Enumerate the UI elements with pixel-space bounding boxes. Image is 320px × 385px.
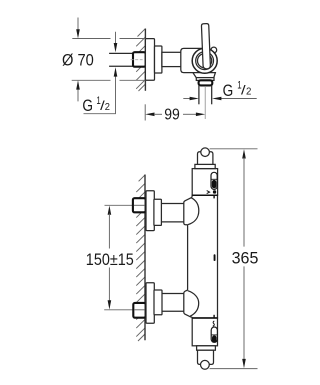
label G 1/2 (left)	[82, 95, 110, 115]
outlet pipe lines	[198, 85, 200, 104]
top ball end	[201, 148, 210, 157]
365 top extension line	[210, 148, 258, 150]
svg-text:2: 2	[246, 87, 252, 98]
dia70 dimension arrow top	[76, 18, 80, 39]
lower boss D-curve	[188, 291, 199, 317]
wall line (top view)	[144, 29, 146, 91]
upper small marks	[207, 191, 210, 194]
upper capsule black dot	[212, 180, 217, 188]
G1/2 inlet dimension arrow bottom + leader	[84, 67, 118, 113]
outlet centerline extension	[204, 86, 206, 119]
svg-text:99: 99	[164, 106, 180, 123]
365 dimension line + arrows	[242, 149, 246, 368]
dia70 dimension arrow bottom	[76, 80, 80, 101]
lower inlet union nut (front view)	[133, 303, 145, 318]
upper boss D-curve	[188, 198, 199, 225]
99 dimension left extension	[144, 104, 146, 120]
valve body block (top view)	[181, 48, 208, 72]
wall hatching (front view)	[136, 175, 145, 341]
temperature stop nub on hub	[211, 47, 217, 53]
wall line (front view)	[144, 175, 146, 341]
outlet union nut (below hub)	[199, 80, 213, 85]
upper tick below joint	[213, 196, 215, 199]
lower wall flange	[146, 283, 154, 323]
bottom collar	[197, 346, 216, 350]
outlet neck trapezoid	[193, 73, 216, 78]
lower temp-safety capsule	[211, 327, 217, 342]
inlet centerline (dashed)	[131, 59, 143, 61]
upper nut centerline	[134, 204, 145, 206]
wall flange Ø70 (top view)	[145, 39, 154, 81]
svg-text:Ø 70: Ø 70	[62, 51, 94, 70]
shut-off lever (top view)	[201, 24, 210, 69]
150 dim upper extension line	[105, 204, 147, 206]
outlet collar lip	[196, 78, 214, 81]
top collar	[195, 164, 215, 168]
handle hub outer circle	[192, 48, 217, 73]
connection pipe (top view)	[162, 52, 181, 66]
lower connection pipe	[162, 294, 184, 312]
top cartridge housing	[192, 169, 217, 196]
svg-text:150±15: 150±15	[86, 250, 134, 269]
lower capsule black dot	[212, 335, 217, 342]
bottom ball end	[201, 360, 210, 369]
svg-text:365: 365	[232, 248, 259, 267]
svg-text:2: 2	[105, 102, 111, 113]
hub ring 3	[198, 54, 212, 68]
top stem	[198, 152, 213, 165]
inlet pipe behind wall	[109, 53, 133, 66]
dia70 top extension line	[72, 38, 145, 40]
union nut (top view, behind wall)	[133, 52, 146, 66]
lower tick above joint	[213, 315, 215, 318]
365 bottom extension line	[210, 368, 258, 370]
wall hatching (top view)	[136, 29, 145, 91]
bottom joint line	[192, 317, 217, 319]
150 dimension line + arrows	[108, 206, 112, 310]
dia70 bottom extension line	[72, 79, 146, 81]
upper wall flange	[146, 191, 154, 231]
bottom stem	[198, 350, 214, 364]
upper connection pipe	[161, 204, 184, 222]
thermostat body outline (front view)	[184, 195, 218, 318]
lower nut centerline	[134, 309, 145, 311]
mid clip tick	[214, 254, 216, 261]
G1/2 outlet arrows	[183, 97, 256, 101]
99 dimension line + arrows	[145, 113, 205, 117]
svg-text:G: G	[223, 82, 234, 100]
label G 1/2 (right)	[223, 80, 252, 100]
lower squiggle mark	[213, 321, 215, 326]
upper temp-safety capsule	[211, 172, 217, 189]
lower flange step	[154, 290, 162, 315]
upper inlet union nut (front view)	[133, 198, 146, 212]
G1/2 inlet dimension arrow top	[114, 32, 118, 53]
top housing joint line	[192, 194, 217, 196]
bottom housing	[192, 318, 217, 346]
150 dim lower extension line	[104, 309, 146, 311]
upper flange step	[154, 199, 162, 225]
svg-text:G: G	[82, 97, 93, 115]
hub ring 2	[196, 52, 214, 70]
flange step cylinder (top view)	[155, 46, 162, 73]
